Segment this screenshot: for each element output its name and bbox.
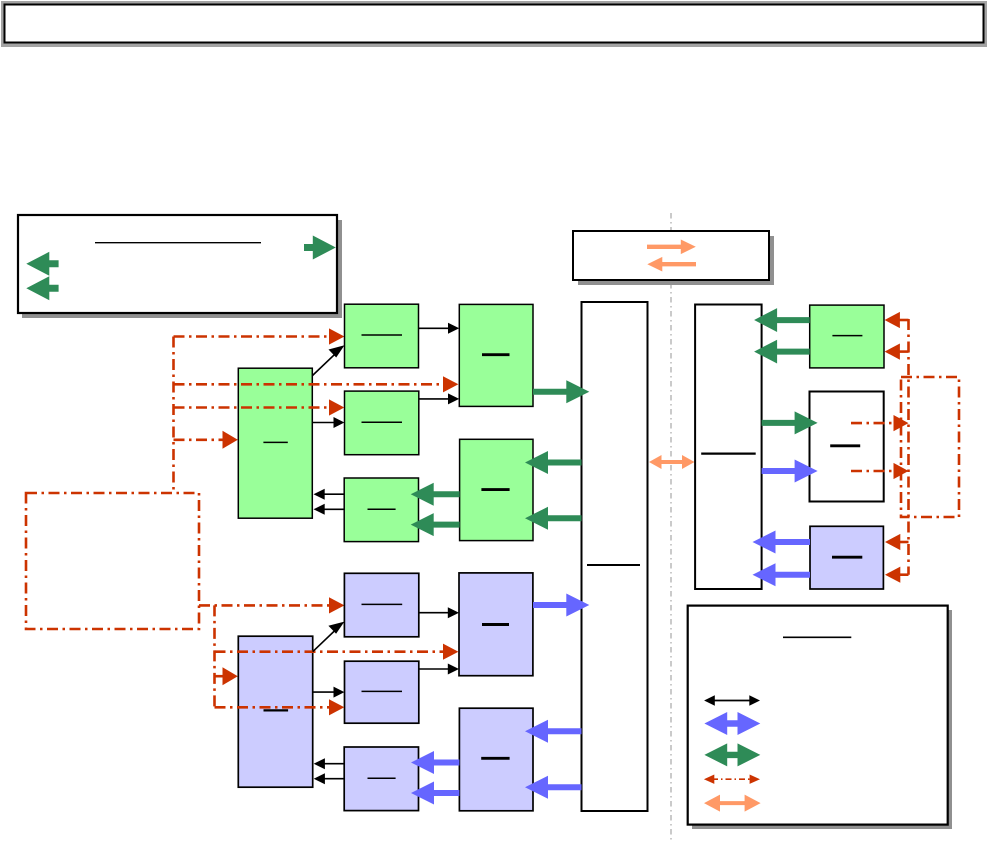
wire red vertical right bbox=[907, 319, 910, 575]
top green box bbox=[345, 304, 419, 368]
green arrow rtop to hub bbox=[533, 380, 589, 403]
black arrow top to rtop purple bbox=[419, 612, 449, 614]
legend title line bbox=[95, 242, 261, 244]
top purple box bbox=[344, 573, 418, 637]
red arrow rmid to dashed box 1 bbox=[851, 422, 894, 425]
wire red to rtop green box bbox=[174, 383, 444, 386]
right middle white box bbox=[810, 392, 884, 502]
blue arrow rpurple to column 1 bbox=[753, 531, 811, 554]
wire red to tall green box bbox=[174, 438, 223, 441]
black arrow bottom to tall purple 2 bbox=[324, 778, 344, 780]
legend green arrow left 2 bbox=[26, 276, 58, 300]
black diag arrow green bbox=[313, 352, 338, 375]
black arrow bottom to tall purple 1 bbox=[324, 763, 344, 765]
legend orange double arrow bbox=[716, 801, 748, 805]
red stub to right green box 1 bbox=[898, 319, 909, 322]
rbottom green box bbox=[460, 439, 533, 540]
green arrow hub to rbottom 2 bbox=[525, 507, 582, 530]
wire red to tall purple box bbox=[215, 675, 223, 678]
legend green arrow left 1 bbox=[26, 252, 58, 276]
red dash-dot box right bbox=[901, 377, 959, 517]
hub tall rect bbox=[582, 302, 648, 811]
black diag arrow purple bbox=[313, 629, 337, 652]
blue arrow rbottom to bottom 1 bbox=[411, 751, 459, 774]
wire red from box to top purple box bbox=[199, 604, 329, 607]
red stub to right purple box 2 bbox=[900, 573, 909, 576]
wire red vertical left bbox=[172, 337, 175, 494]
legend box top-left bbox=[18, 215, 337, 313]
legend blue double arrow bbox=[704, 712, 760, 735]
legend box top-left shadow bbox=[22, 220, 342, 318]
blue arrow column to rmid bbox=[762, 460, 818, 483]
blue arrow rpurple to column 2 bbox=[753, 563, 811, 586]
black arrow tall to middle green bbox=[312, 422, 334, 424]
middle green box bbox=[345, 391, 419, 455]
exchange box bbox=[573, 231, 769, 280]
orange double arrow bbox=[649, 455, 695, 469]
wire red to top green box bbox=[174, 335, 330, 338]
rtop purple box bbox=[459, 573, 533, 676]
blue arrow hub to rbottom 2 bbox=[525, 776, 582, 799]
black arrow bottom to tall green 1 bbox=[324, 493, 344, 495]
tall green box bbox=[238, 368, 312, 518]
blue arrow hub to rbottom 1 bbox=[525, 720, 582, 743]
exchange orange arrow left bbox=[647, 257, 696, 272]
red stub to right green box 2 bbox=[898, 350, 909, 353]
green arrow rgreen to column 2 bbox=[754, 340, 810, 364]
exchange orange arrow right bbox=[647, 240, 696, 255]
red stub to right purple box 1 bbox=[900, 541, 909, 544]
black arrow middle to rtop purple bbox=[419, 668, 449, 670]
legend green double arrow bbox=[704, 743, 760, 766]
title box shadow frame bbox=[1, 1, 987, 47]
right green box bbox=[810, 305, 884, 368]
legend black double arrow bbox=[712, 700, 752, 702]
black arrow middle to rtop green bbox=[419, 398, 449, 400]
black arrow top to rtop green bbox=[419, 327, 449, 329]
green arrow rbottom to bottom 2 bbox=[411, 513, 460, 536]
bottom green box bbox=[344, 478, 418, 542]
tall purple box bbox=[238, 636, 312, 787]
exchange box shadow bbox=[578, 236, 774, 285]
wire red vertical left 2 bbox=[213, 605, 216, 707]
green arrow rbottom to bottom 1 bbox=[411, 483, 460, 506]
column box right bbox=[695, 305, 762, 590]
legend red double arrow bbox=[712, 778, 752, 780]
middle purple box bbox=[345, 661, 419, 723]
rtop green box bbox=[459, 304, 533, 406]
black arrow bottom to tall green 2 bbox=[324, 508, 344, 510]
wire red to rtop purple box bbox=[215, 650, 444, 653]
green arrow column to rmid bbox=[762, 411, 818, 434]
wire red to middle green box bbox=[174, 406, 330, 409]
legend box bottom-right shadow bbox=[692, 610, 952, 829]
blue arrow rtop to hub bbox=[533, 594, 589, 617]
legend box bottom-right bbox=[688, 606, 948, 825]
wire red to middle purple box bbox=[215, 706, 330, 709]
red dash-dot box left bbox=[26, 493, 199, 629]
green arrow hub to rbottom 1 bbox=[525, 451, 582, 474]
divider dashed line bbox=[670, 213, 672, 841]
legend BR title line bbox=[783, 636, 851, 638]
green arrow rgreen to column 1 bbox=[754, 308, 810, 332]
black arrow tall to middle purple bbox=[313, 691, 334, 693]
red arrow rmid to dashed box 2 bbox=[851, 470, 894, 473]
legend green arrow right bbox=[304, 236, 336, 260]
bottom purple box bbox=[344, 747, 418, 811]
blue arrow rbottom to bottom 2 bbox=[411, 782, 459, 805]
rbottom purple box bbox=[459, 708, 533, 811]
title box bbox=[5, 5, 984, 43]
right purple box bbox=[810, 526, 883, 589]
